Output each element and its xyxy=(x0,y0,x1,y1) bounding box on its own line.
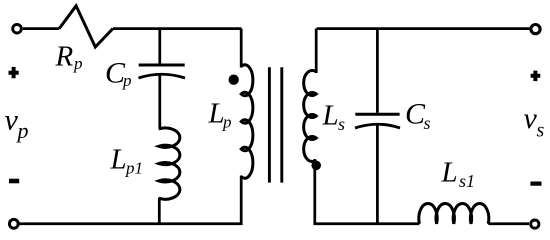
plus left xyxy=(9,67,19,78)
svg-text:p: p xyxy=(122,71,132,90)
wire C_p to L_p1 xyxy=(158,76,161,130)
svg-text:v: v xyxy=(524,102,538,135)
capacitor C_p lead top xyxy=(158,29,161,64)
capacitor C_s lead bottom xyxy=(376,126,379,224)
svg-text:L: L xyxy=(322,100,339,132)
dot secondary xyxy=(311,161,321,171)
svg-text:p: p xyxy=(73,54,83,73)
capacitor C_p bottom plate xyxy=(139,74,186,78)
wire top mid xyxy=(113,27,242,30)
svg-text:s: s xyxy=(424,113,431,133)
capacitor C_p top plate xyxy=(139,64,185,67)
transformer secondary lead top xyxy=(315,29,318,73)
minus right xyxy=(530,182,541,186)
svg-text:p: p xyxy=(16,118,29,143)
minus left xyxy=(9,179,19,184)
svg-text:v: v xyxy=(5,103,19,136)
wire bottom-left xyxy=(19,176,241,224)
svg-text:R: R xyxy=(55,41,74,73)
terminal top-right xyxy=(531,25,540,34)
transformer core xyxy=(269,67,281,182)
plus right xyxy=(531,71,541,82)
dot primary xyxy=(229,75,239,85)
terminal bottom-right xyxy=(531,220,539,228)
svg-text:s1: s1 xyxy=(459,171,475,191)
transformer primary winding L_p xyxy=(241,65,253,179)
capacitor C_s bottom plate xyxy=(355,124,400,128)
terminal top-left xyxy=(13,24,22,33)
transformer secondary winding L_s xyxy=(304,71,317,162)
capacitor C_s top plate xyxy=(355,113,399,116)
wire L_p1 to bottom xyxy=(158,198,161,225)
wire bottom right xyxy=(488,222,529,225)
svg-text:s: s xyxy=(338,114,345,134)
svg-text:p1: p1 xyxy=(125,159,143,178)
inductor L_p1 xyxy=(159,128,180,199)
terminal bottom-left xyxy=(9,219,18,228)
wire top-left xyxy=(23,27,59,30)
svg-text:L: L xyxy=(110,144,127,176)
transformer primary lead top xyxy=(240,29,243,68)
capacitor C_s lead xyxy=(376,29,379,113)
svg-text:s: s xyxy=(537,120,545,142)
inductor L_s1 xyxy=(419,203,489,223)
svg-text:p: p xyxy=(222,113,232,132)
resistor R_p xyxy=(59,6,113,47)
wire top right xyxy=(316,27,529,30)
svg-text:L: L xyxy=(441,157,458,189)
wire secondary bottom xyxy=(315,159,420,224)
